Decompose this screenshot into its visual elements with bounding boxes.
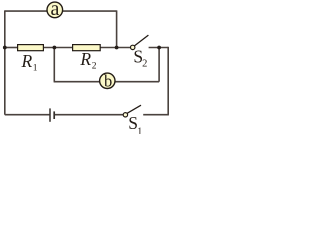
switch S2 arm [134,35,148,46]
wire between R1 and R2 [44,47,73,49]
voltmeter b [100,73,115,88]
battery long plate [49,108,51,121]
battery short plate [53,111,55,119]
switch S1 pivot [123,113,127,117]
switch S1 arm [127,105,141,113]
svg-text:R: R [79,49,91,69]
switch S2 pivot [131,45,135,49]
wire b-branch stub down [53,48,55,82]
node between R1 and R2 [53,46,57,50]
node ammeter drop [115,46,119,50]
resistor R2 [73,45,101,51]
svg-text:b: b [104,72,112,91]
ammeter a [47,2,63,18]
wire bottom left to battery [5,114,50,116]
svg-text:1: 1 [33,64,38,74]
svg-text:a: a [51,0,60,20]
node left-middle [3,46,7,50]
wire top [5,10,117,12]
svg-text:2: 2 [142,59,147,70]
svg-text:2: 2 [92,61,97,71]
wire after S1 to right corner [143,114,169,116]
wire middle right [149,47,169,49]
wire middle left [5,47,18,49]
wire b-branch up [158,48,160,82]
node b-branch right top [157,46,161,50]
wire ammeter drop [116,10,118,47]
svg-text:1: 1 [137,127,142,134]
svg-text:R: R [21,51,33,71]
resistor R1 [18,45,44,51]
wire right frame [167,47,169,115]
wire left [4,10,6,114]
wire b-branch horizontal [54,81,160,83]
wire battery to S1 [54,114,123,116]
wire R2 to S2 [100,47,131,49]
